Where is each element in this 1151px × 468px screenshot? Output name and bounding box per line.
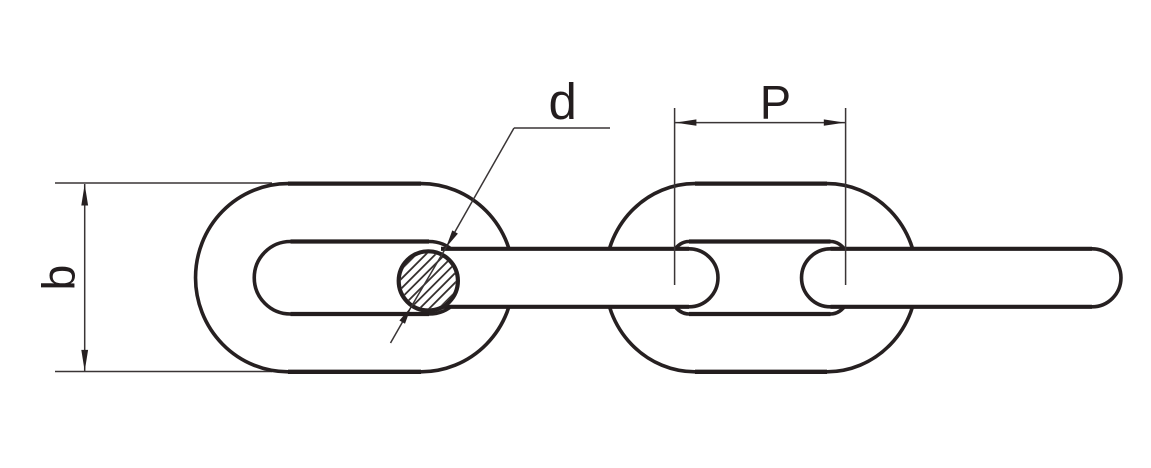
svg-text:d: d (549, 73, 577, 130)
svg-text:P: P (760, 76, 791, 129)
svg-text:b: b (33, 265, 85, 291)
